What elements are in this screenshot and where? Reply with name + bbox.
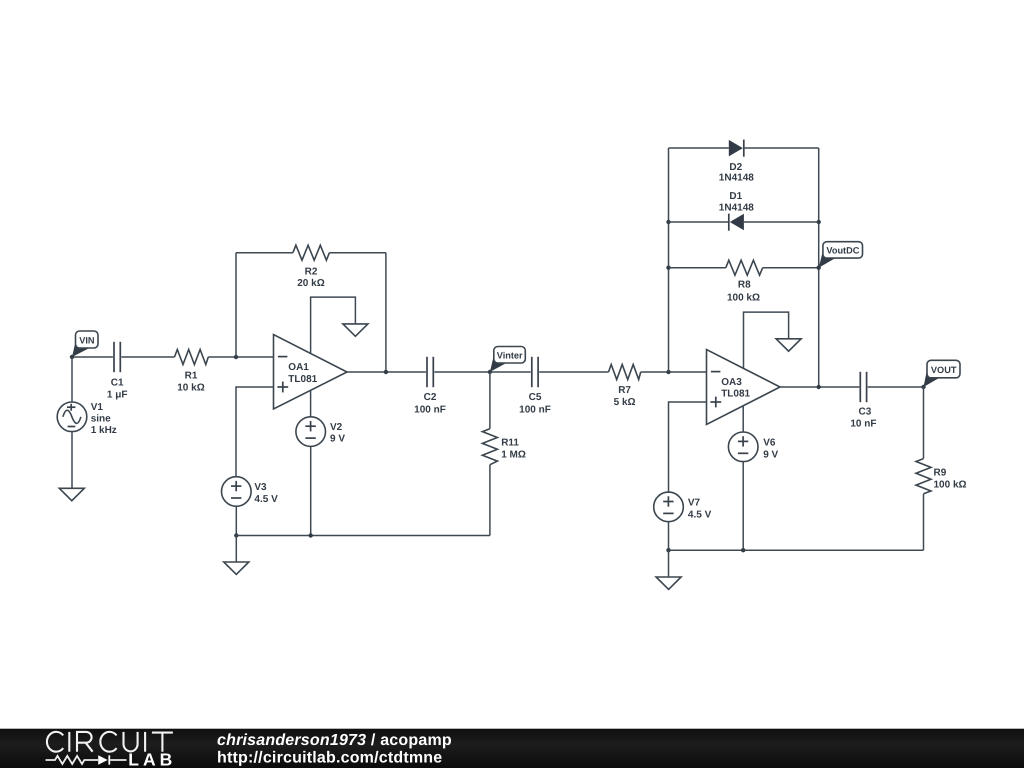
svg-text:100 kΩ: 100 kΩ — [934, 480, 967, 491]
svg-text:1N4148: 1N4148 — [719, 173, 754, 184]
svg-text:R2: R2 — [305, 266, 318, 277]
node VIN flag — [72, 331, 98, 357]
svg-text:V3: V3 — [254, 482, 267, 493]
svg-text:D1: D1 — [729, 191, 742, 202]
wire R2 feedback right vertical — [385, 253, 387, 372]
wire OA3 V- pin — [742, 406, 744, 432]
wire V3 bottom — [235, 506, 237, 535]
node ground rail / V6 — [741, 548, 745, 552]
wire V1 top — [71, 357, 73, 402]
resistor R9 — [916, 387, 967, 550]
svg-text:100 kΩ: 100 kΩ — [727, 292, 760, 303]
svg-text:100 nF: 100 nF — [519, 404, 551, 415]
ground stage 2 rail — [656, 550, 681, 589]
wire C3 to VOUT node — [868, 386, 924, 388]
wire D1 left — [669, 221, 729, 223]
node R8 left junction — [666, 266, 670, 270]
svg-text:9 V: 9 V — [330, 434, 345, 445]
voltage source V6 — [728, 432, 778, 462]
node Vinter flag — [490, 347, 525, 373]
svg-text:C1: C1 — [111, 378, 124, 389]
svg-text:TL081: TL081 — [721, 388, 750, 399]
svg-text:VOUT: VOUT — [931, 365, 957, 375]
wire C5 to R7 — [539, 371, 608, 373]
svg-text:VoutDC: VoutDC — [826, 246, 859, 256]
svg-text:chrisanderson1973 / acopamp: chrisanderson1973 / acopamp — [217, 732, 452, 749]
svg-text:V7: V7 — [688, 498, 701, 509]
wire R7 to OA3 inverting input — [641, 371, 707, 373]
node OA3- junction — [666, 370, 670, 374]
capacitor C2 — [414, 357, 446, 416]
wire C2 to Vinter node — [434, 371, 490, 373]
capacitor C5 — [519, 357, 551, 416]
wire ground rail stage 2 — [669, 549, 924, 551]
ground under V1 — [59, 488, 84, 500]
wire D1 right — [744, 221, 819, 223]
voltage source V7 — [654, 492, 712, 522]
svg-text:R11: R11 — [501, 437, 519, 448]
node VoutDC junction — [817, 266, 821, 270]
svg-text:5 kΩ: 5 kΩ — [614, 397, 636, 408]
svg-text:V2: V2 — [330, 422, 343, 433]
resistor R1 — [175, 350, 209, 394]
wire VIN node to C1 — [72, 356, 113, 358]
wire feedback left vertical rail — [668, 148, 670, 372]
svg-text:R9: R9 — [934, 468, 947, 479]
node Vinter junction — [488, 370, 492, 374]
svg-text:4.5 V: 4.5 V — [688, 510, 712, 521]
wire feedback right vertical rail — [818, 148, 820, 387]
wire Vinter to C5 — [490, 371, 531, 373]
svg-text:100 nF: 100 nF — [414, 404, 446, 415]
svg-text:R1: R1 — [185, 370, 198, 381]
node D1 right junction — [817, 220, 821, 224]
node VOUT junction — [921, 385, 925, 389]
ground OA3 V+ — [776, 339, 801, 351]
node R1/R2/OA1- junction — [234, 355, 238, 359]
node ground rail / V7 — [666, 548, 670, 552]
svg-text:1 μF: 1 μF — [107, 390, 128, 401]
node D1 left junction — [666, 220, 670, 224]
svg-text:1 kHz: 1 kHz — [91, 425, 117, 436]
node ground rail / V2 — [309, 533, 313, 537]
voltage source V1 sine — [57, 402, 117, 436]
wire R2 right horizontal — [329, 252, 386, 254]
resistor R2 — [293, 245, 330, 289]
svg-text:10 kΩ: 10 kΩ — [177, 382, 204, 393]
node OA1 output / feedback junction — [384, 370, 388, 374]
wire OA3 V+ pin hook — [744, 312, 789, 368]
svg-text:20 kΩ: 20 kΩ — [297, 278, 324, 289]
svg-text:C2: C2 — [424, 392, 437, 403]
wire OA3 noninverting input — [669, 402, 707, 492]
wire R2 left horizontal — [236, 252, 293, 254]
svg-text:4.5 V: 4.5 V — [254, 494, 278, 505]
svg-text:9 V: 9 V — [763, 449, 778, 460]
diode D1 — [719, 191, 754, 231]
node VOUT flag — [924, 360, 961, 387]
svg-text:V6: V6 — [763, 438, 776, 449]
wire V6 bottom — [742, 462, 744, 551]
svg-text:Vinter: Vinter — [497, 351, 523, 361]
svg-text:D2: D2 — [729, 162, 742, 173]
wire C1 to R1 — [121, 356, 174, 358]
wire OA1 V- pin — [310, 391, 312, 417]
svg-text:OA1: OA1 — [288, 362, 309, 373]
node VoutDC flag — [819, 242, 863, 268]
wire OA1 output — [347, 371, 426, 373]
ground OA1 V+ — [343, 324, 368, 336]
voltage source V2 — [296, 417, 345, 447]
svg-text:1N4148: 1N4148 — [719, 203, 754, 214]
footer bar — [0, 729, 1024, 768]
wire R8 right — [763, 267, 819, 269]
resistor R8 — [726, 260, 763, 303]
svg-text:OA3: OA3 — [721, 377, 742, 388]
svg-text:LAB: LAB — [128, 749, 176, 768]
voltage source V3 — [222, 477, 279, 507]
wire R2 feedback left vertical — [235, 253, 237, 357]
op-amp OA3 — [707, 350, 781, 425]
wire ground rail stage 1 — [236, 535, 490, 537]
wire OA3 output — [780, 386, 859, 388]
wire OA1 noninverting input — [236, 387, 274, 477]
wire OA1 V+ pin hook — [311, 297, 356, 353]
svg-text:R7: R7 — [618, 385, 631, 396]
wire V7 bottom — [668, 522, 670, 551]
capacitor C1 — [107, 342, 128, 401]
node ground rail / V3 — [234, 533, 238, 537]
svg-text:C3: C3 — [859, 406, 872, 417]
node VIN junction — [70, 355, 74, 359]
diode D2 — [719, 140, 754, 184]
wire R8 left — [669, 267, 726, 269]
wire V1 bottom — [71, 432, 73, 489]
ground stage 1 rail — [224, 536, 249, 575]
op-amp OA1 — [274, 335, 348, 410]
svg-text:http://circuitlab.com/ctdtmne: http://circuitlab.com/ctdtmne — [217, 749, 442, 766]
svg-text:VIN: VIN — [79, 335, 95, 345]
resistor R7 — [609, 365, 641, 409]
wire R1 to OA1 inverting input — [208, 356, 273, 358]
capacitor C3 — [850, 372, 876, 430]
wire V2 bottom — [310, 446, 312, 535]
resistor R11 — [482, 372, 525, 536]
svg-text:R8: R8 — [738, 280, 751, 291]
svg-text:sine: sine — [91, 414, 111, 425]
wire D2 right — [744, 147, 819, 149]
svg-text:C5: C5 — [529, 392, 542, 403]
wire D2 left — [669, 147, 729, 149]
svg-text:TL081: TL081 — [288, 374, 317, 385]
svg-text:V1: V1 — [91, 402, 104, 413]
svg-text:10 nF: 10 nF — [850, 419, 876, 430]
svg-text:1 MΩ: 1 MΩ — [501, 449, 526, 460]
node OA3 output junction — [817, 385, 821, 389]
